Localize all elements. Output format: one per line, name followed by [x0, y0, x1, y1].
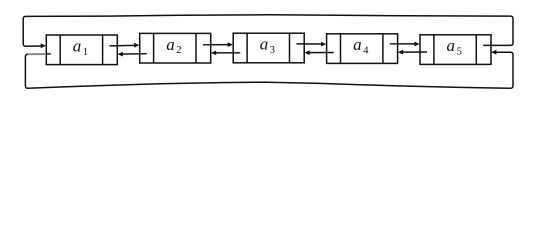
arrowhead next into a3	[228, 42, 233, 47]
arrowhead prev into a2	[211, 51, 216, 56]
svg-text:a5: a5	[447, 36, 462, 57]
wire next a3 to a4	[296, 43, 321, 45]
arrowhead prev into a3	[305, 50, 310, 55]
arrowhead prev into a1	[118, 52, 123, 57]
svg-text:a2: a2	[166, 35, 181, 56]
node a5 box	[420, 35, 491, 65]
arrowhead prev into a4	[398, 50, 403, 55]
arrowhead next into a4	[321, 42, 326, 47]
wire next a2 to a3	[203, 44, 228, 46]
wire prev a1 wrap to a5 (bottom rail)	[25, 52, 513, 88]
wire next a5 wrap to a1 (top rail)	[23, 15, 513, 46]
wire prev a5 to a4	[402, 51, 427, 53]
arrowhead next into a2	[134, 43, 139, 48]
wire prev a3 to a2	[216, 52, 241, 54]
arrowhead prev into a5	[491, 50, 496, 55]
wire next a4 to a5	[390, 43, 415, 45]
node a2 box	[140, 33, 211, 63]
wire prev a4 to a3	[309, 52, 334, 54]
svg-text:a4: a4	[353, 35, 369, 56]
wire prev a1 wrap to a5 (bottom rail), gray exit segment	[46, 53, 51, 55]
svg-text:a1: a1	[73, 36, 88, 57]
node a3 box	[233, 33, 304, 63]
arrowhead next into a5	[414, 42, 419, 47]
node a1 box	[46, 35, 117, 65]
svg-text:a3: a3	[260, 35, 275, 56]
arrowhead next into a1	[41, 43, 46, 48]
node a4 box	[327, 34, 398, 64]
wire prev a2 to a1	[122, 53, 147, 55]
wire next a1 to a2	[110, 44, 135, 47]
